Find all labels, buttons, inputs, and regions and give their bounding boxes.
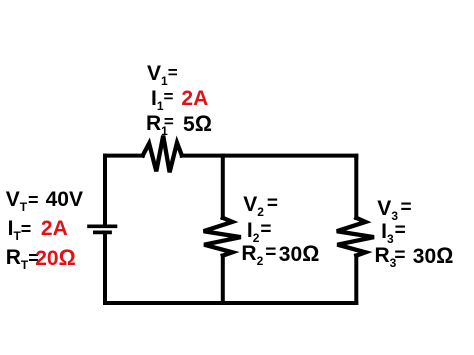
wire top-right segment (R1 right lead to node B to node C) — [182, 156, 356, 158]
label R2 with value 30 ohm — [241, 243, 276, 264]
label V1 — [147, 63, 178, 84]
resistor R3 — [337, 218, 374, 256]
wire bottom segment (node D to node E to node F) — [105, 301, 356, 305]
wire left lower segment (battery - to node D) — [103, 234, 107, 303]
label V3 — [377, 198, 411, 219]
label I1 with value 2A — [151, 88, 173, 109]
label I3 — [381, 221, 406, 242]
wire right upper segment (node C to R3 top lead) — [354, 156, 358, 218]
resistor R2 — [204, 218, 241, 256]
wire middle upper segment (node B to R2 top lead) — [221, 156, 225, 218]
label V2 — [243, 194, 278, 215]
label I2 — [247, 220, 272, 241]
battery VT negative plate — [93, 231, 112, 235]
wire middle lower segment (R2 bottom lead to node E junction) — [221, 256, 225, 304]
battery VT positive plate — [87, 224, 117, 228]
label VT with value 40V — [6, 189, 39, 210]
resistor R1 — [143, 136, 182, 173]
label R1 with value 5 ohm — [146, 113, 174, 134]
wire right lower segment (R3 bottom lead to node F) — [354, 256, 358, 304]
wire left upper segment (node A to battery +) — [103, 156, 107, 225]
label IT with value 2A — [8, 218, 32, 239]
label RT with value 20 ohm — [6, 247, 39, 268]
wire top-left segment (node A to R1 left lead) — [105, 156, 143, 158]
label R3 with value 30 ohm — [375, 245, 406, 266]
